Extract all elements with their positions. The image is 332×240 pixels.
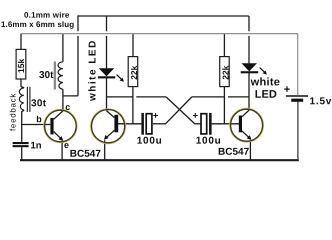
svg-text:30t: 30t (39, 70, 54, 81)
svg-text:15k: 15k (16, 59, 26, 73)
svg-text:0.1mm wire: 0.1mm wire (24, 11, 70, 20)
svg-text:22k: 22k (220, 65, 230, 79)
svg-text:LED: LED (255, 89, 277, 101)
svg-text:100u: 100u (196, 136, 222, 147)
svg-text:BC547: BC547 (70, 149, 102, 160)
svg-text:1n: 1n (30, 140, 41, 151)
svg-text:white: white (250, 76, 281, 88)
svg-text:+: + (153, 111, 159, 122)
svg-text:white LED: white LED (87, 39, 98, 102)
svg-text:c: c (65, 102, 70, 112)
svg-text:BC547: BC547 (218, 147, 250, 158)
svg-text:+: + (192, 111, 198, 122)
svg-text:22k: 22k (129, 65, 139, 79)
svg-text:30t: 30t (31, 98, 47, 109)
svg-text:b: b (36, 114, 42, 124)
svg-text:1.5v: 1.5v (309, 96, 332, 107)
svg-text:feedback: feedback (9, 93, 18, 131)
svg-text:+: + (284, 84, 290, 96)
svg-text:e: e (64, 140, 69, 150)
svg-text:100u: 100u (137, 136, 163, 147)
svg-text:1.6mm x 6mm slug: 1.6mm x 6mm slug (1, 20, 74, 29)
